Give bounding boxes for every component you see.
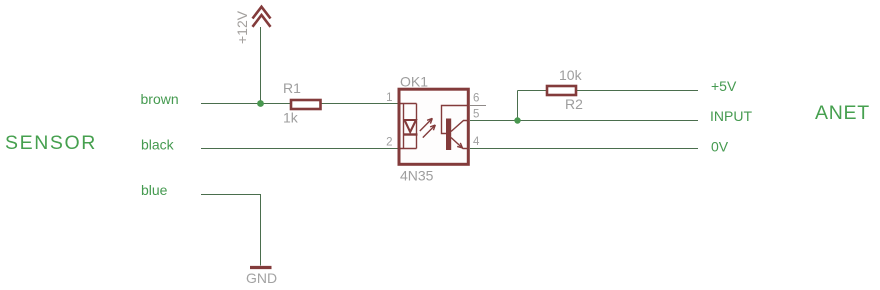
- svg-text:OK1: OK1: [400, 74, 428, 90]
- OK1 internal LED cathode bar: [403, 133, 418, 135]
- pin 6 stub wire: [470, 105, 486, 107]
- node junction on INPUT net at R2 riser: [514, 117, 520, 123]
- wire black net (sensor black to OK1 pin 2): [201, 148, 399, 150]
- op-amp OK1 optocoupler box: [399, 89, 468, 164]
- svg-text:1: 1: [386, 92, 392, 104]
- OK1 phototransistor emitter line to pin 4: [451, 138, 469, 149]
- OK1 light arrow 1: [420, 118, 433, 131]
- svg-text:6: 6: [473, 93, 479, 105]
- wire +12V riser: [260, 27, 262, 104]
- svg-text:R2: R2: [565, 96, 583, 112]
- wire INPUT net (OK1 pin 5 to INPUT): [470, 120, 698, 122]
- OK1 phototransistor collector line to pin 5: [451, 121, 469, 132]
- svg-text:SENSOR: SENSOR: [5, 132, 97, 154]
- svg-text:10k: 10k: [559, 67, 583, 83]
- wire blue net (sensor blue to GND): [201, 195, 261, 266]
- svg-text:blue: blue: [141, 182, 168, 198]
- OK1 light arrow 2: [423, 125, 436, 138]
- svg-text:+12V: +12V: [234, 10, 250, 44]
- svg-text:GND: GND: [246, 270, 277, 286]
- svg-text:INPUT: INPUT: [710, 108, 752, 124]
- svg-text:0V: 0V: [711, 139, 729, 155]
- node junction on brown net at +12V riser: [257, 100, 264, 107]
- svg-text:+5V: +5V: [711, 78, 737, 94]
- OK1 phototransistor base bar: [446, 119, 451, 151]
- svg-text:2: 2: [386, 137, 392, 149]
- wire riser from INPUT junction to R2: [517, 91, 519, 121]
- resistor R2 body: [547, 86, 576, 95]
- svg-text:5: 5: [473, 109, 479, 121]
- OK1 internal LED leads: [399, 104, 417, 149]
- wire +5V net through R2: [518, 90, 699, 92]
- wire 0V net (OK1 pin 4 to 0V): [470, 148, 698, 150]
- wire brown net (sensor brown to OK1 pin 1): [201, 103, 399, 105]
- svg-text:ANET: ANET: [815, 102, 870, 124]
- OK1 internal LED triangle: [405, 120, 417, 132]
- svg-text:R1: R1: [283, 80, 301, 96]
- ground GND symbol bar: [250, 266, 272, 269]
- svg-text:4N35: 4N35: [400, 167, 434, 183]
- svg-text:brown: brown: [141, 91, 179, 107]
- resistor R1 body: [291, 100, 321, 109]
- svg-text:1k: 1k: [283, 110, 299, 126]
- svg-text:black: black: [141, 137, 175, 153]
- power symbol +12V arrow: [253, 7, 271, 27]
- svg-text:4: 4: [473, 136, 480, 148]
- OK1 phototransistor base line to pin 6: [442, 106, 469, 134]
